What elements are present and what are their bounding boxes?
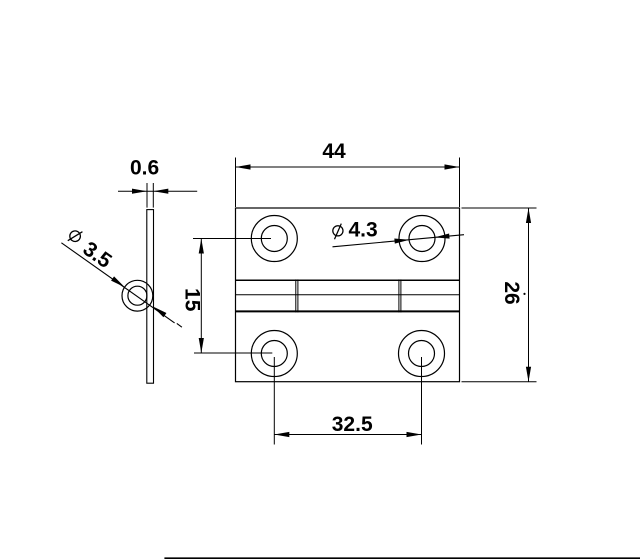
svg-text:4.3: 4.3 — [349, 218, 378, 241]
svg-text:32.5: 32.5 — [332, 413, 373, 436]
svg-text:0.6: 0.6 — [130, 156, 159, 179]
svg-text:3.5: 3.5 — [79, 237, 116, 273]
svg-text:44: 44 — [322, 140, 346, 163]
svg-text:15: 15 — [180, 288, 203, 312]
svg-text:26: 26 — [500, 281, 523, 304]
